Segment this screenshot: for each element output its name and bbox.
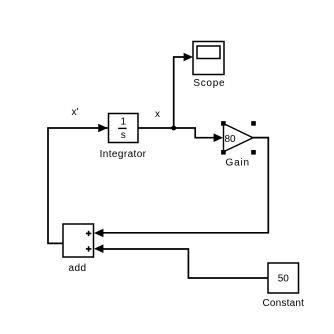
svg-text:x': x' (72, 107, 79, 118)
svg-text:1: 1 (121, 117, 127, 128)
svg-text:80: 80 (224, 134, 236, 145)
svg-text:50: 50 (278, 273, 290, 284)
svg-text:s: s (121, 130, 126, 141)
svg-text:Constant: Constant (262, 298, 304, 309)
svg-text:Gain: Gain (226, 157, 250, 168)
svg-text:add: add (69, 263, 87, 274)
svg-text:x: x (155, 109, 160, 120)
svg-text:Scope: Scope (193, 78, 225, 89)
svg-text:Integrator: Integrator (100, 149, 147, 160)
